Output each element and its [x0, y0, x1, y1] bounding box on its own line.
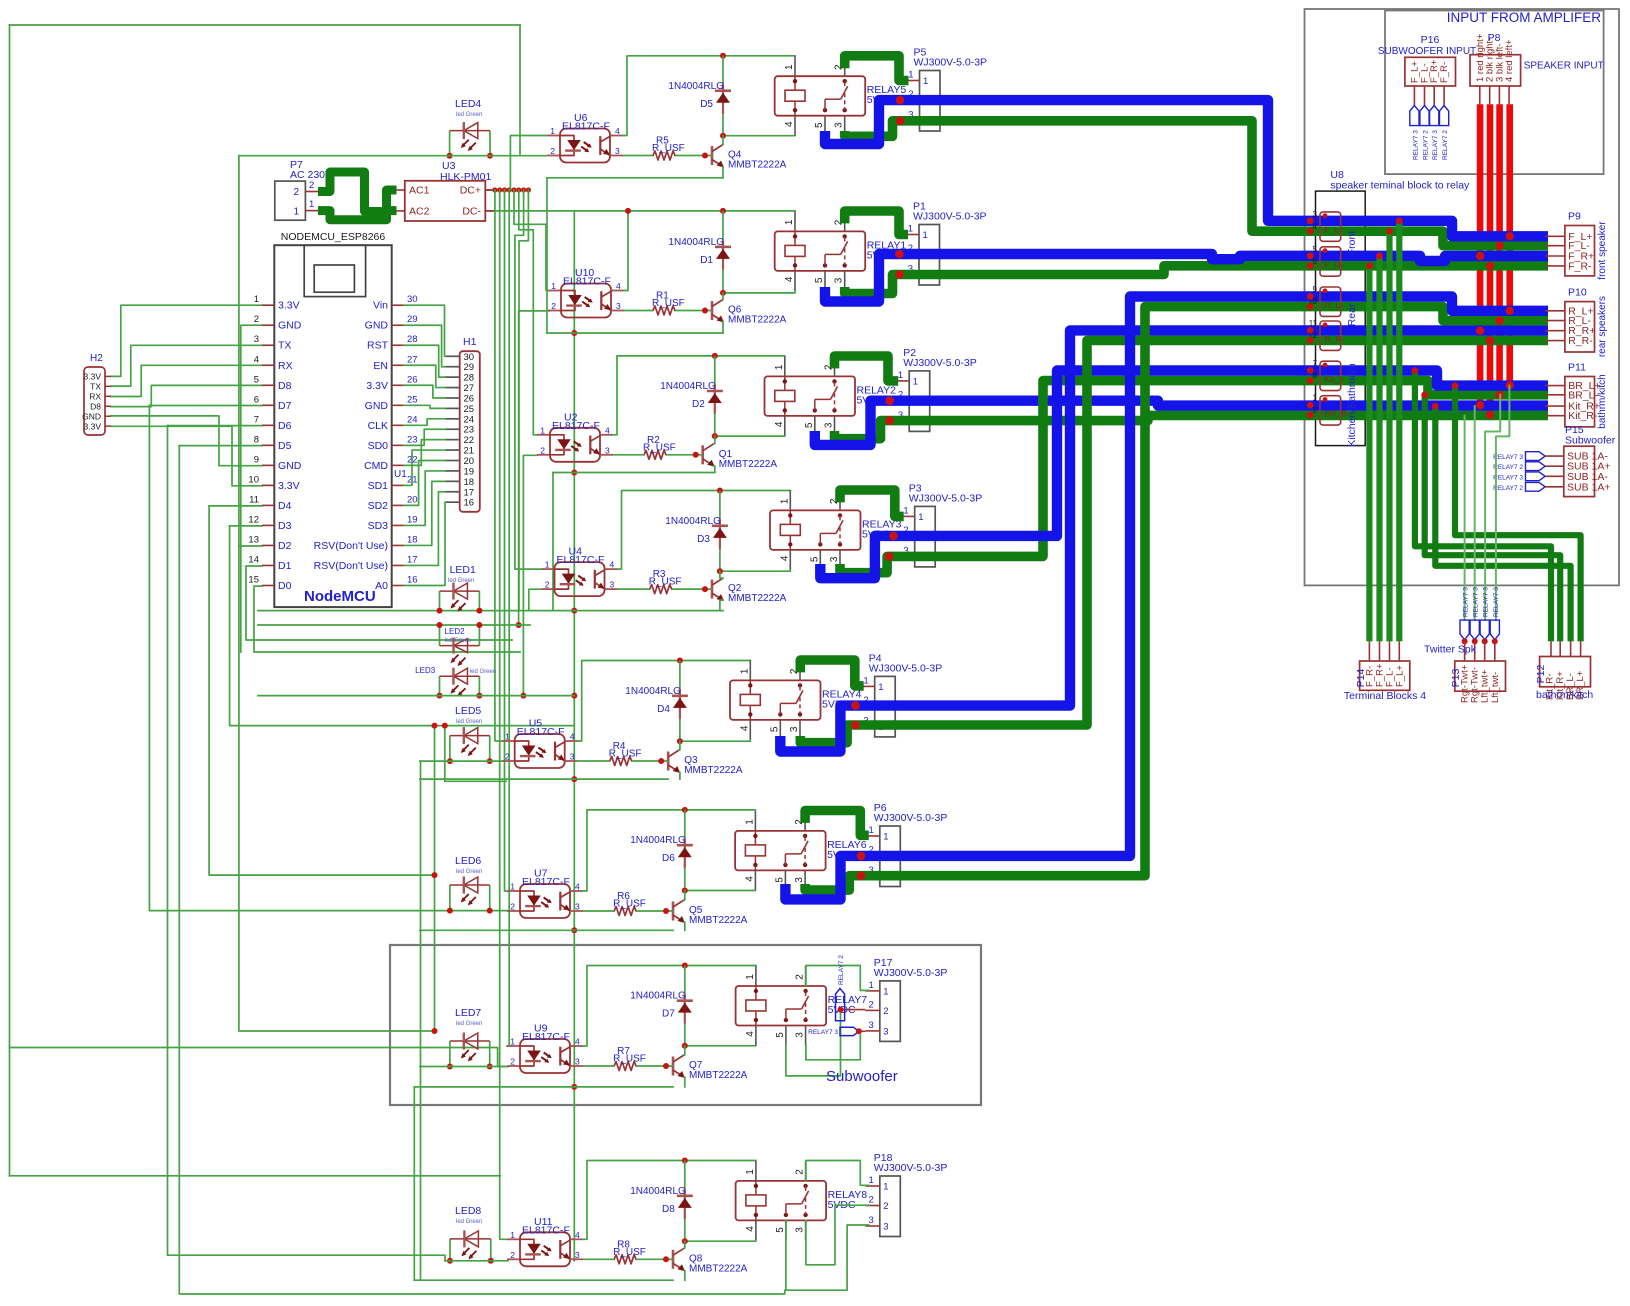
- svg-text:3: 3: [615, 146, 620, 156]
- svg-text:1: 1: [744, 819, 755, 825]
- svg-text:3: 3: [883, 1026, 888, 1037]
- svg-text:Subwoofer: Subwoofer: [826, 1068, 898, 1085]
- svg-text:LED1: LED1: [450, 564, 476, 576]
- svg-text:RELAY7 3: RELAY7 3: [1483, 587, 1490, 617]
- svg-text:1: 1: [784, 64, 795, 70]
- svg-text:R_USF: R_USF: [649, 577, 682, 588]
- svg-text:1: 1: [510, 1037, 515, 1047]
- svg-text:28: 28: [464, 373, 475, 384]
- svg-text:D1: D1: [700, 255, 713, 266]
- svg-text:LED5: LED5: [455, 705, 481, 717]
- svg-text:led Green: led Green: [456, 1219, 482, 1225]
- svg-text:P16: P16: [1421, 34, 1440, 46]
- svg-text:1: 1: [309, 199, 314, 210]
- svg-text:RELAY7 3: RELAY7 3: [1493, 474, 1523, 481]
- svg-text:1: 1: [540, 425, 545, 435]
- svg-text:A0: A0: [375, 580, 388, 592]
- svg-text:3: 3: [610, 580, 615, 590]
- svg-text:3.3V: 3.3V: [366, 380, 388, 392]
- svg-text:LED3: LED3: [415, 666, 436, 675]
- svg-text:5: 5: [1313, 245, 1318, 254]
- svg-text:1: 1: [883, 832, 888, 843]
- svg-text:5: 5: [774, 877, 785, 883]
- svg-text:LED6: LED6: [455, 855, 481, 867]
- svg-text:R_R-: R_R-: [1325, 334, 1345, 344]
- svg-text:1N4004RLG: 1N4004RLG: [625, 686, 681, 697]
- svg-text:2: 2: [795, 1169, 806, 1175]
- svg-text:4: 4: [744, 876, 755, 882]
- svg-text:MMBT2222A: MMBT2222A: [684, 765, 743, 776]
- svg-text:3.3V: 3.3V: [278, 300, 300, 312]
- svg-text:1N4004RLG: 1N4004RLG: [668, 237, 724, 248]
- svg-text:RELAY7 3: RELAY7 3: [1493, 454, 1523, 461]
- svg-text:1: 1: [784, 219, 795, 225]
- svg-text:D3: D3: [697, 534, 710, 545]
- svg-text:1N4004RLG: 1N4004RLG: [668, 81, 724, 92]
- svg-text:Front: Front: [1346, 231, 1358, 256]
- svg-text:H2: H2: [90, 353, 103, 364]
- svg-text:29: 29: [407, 314, 418, 325]
- svg-text:15: 15: [248, 574, 259, 585]
- svg-text:2: 2: [1313, 406, 1318, 415]
- svg-text:F_R-: F_R-: [1568, 260, 1592, 272]
- svg-text:RSV(Don't Use): RSV(Don't Use): [314, 540, 388, 552]
- svg-text:3: 3: [1313, 210, 1318, 219]
- svg-text:2: 2: [795, 974, 806, 980]
- svg-text:2: 2: [869, 1195, 874, 1206]
- svg-text:1: 1: [739, 668, 750, 674]
- svg-text:3: 3: [795, 1032, 806, 1038]
- svg-text:4: 4: [739, 725, 750, 731]
- svg-text:WJ300V-5.0-3P: WJ300V-5.0-3P: [909, 492, 983, 504]
- svg-text:4: 4: [605, 425, 610, 435]
- svg-text:3: 3: [575, 902, 580, 912]
- svg-text:1: 1: [869, 980, 874, 991]
- svg-text:RELAY7 2: RELAY7 2: [838, 955, 845, 985]
- svg-text:CMD: CMD: [364, 460, 388, 472]
- svg-text:front speaker: front speaker: [1597, 221, 1608, 280]
- svg-text:14: 14: [248, 554, 259, 565]
- svg-text:1N4004RLG: 1N4004RLG: [665, 516, 721, 527]
- svg-text:SD3: SD3: [368, 520, 389, 532]
- svg-text:20: 20: [407, 494, 418, 505]
- svg-text:Rear: Rear: [1346, 303, 1358, 326]
- svg-text:18: 18: [464, 477, 475, 488]
- svg-text:LED8: LED8: [455, 1205, 481, 1217]
- svg-text:EL817C-F: EL817C-F: [522, 1031, 570, 1043]
- svg-text:16: 16: [464, 498, 475, 509]
- svg-text:RX: RX: [89, 392, 101, 402]
- svg-text:D2: D2: [278, 540, 292, 552]
- svg-text:WJ300V-5.0-3P: WJ300V-5.0-3P: [874, 1162, 948, 1174]
- svg-text:D5: D5: [278, 440, 292, 452]
- svg-text:RELAY7 2: RELAY7 2: [1442, 130, 1449, 160]
- svg-text:3: 3: [795, 1227, 806, 1233]
- svg-text:1: 1: [745, 974, 756, 980]
- svg-text:21: 21: [464, 446, 475, 457]
- svg-text:LED4: LED4: [455, 98, 481, 110]
- svg-text:D4: D4: [657, 704, 670, 715]
- svg-text:SD1: SD1: [368, 480, 389, 492]
- svg-text:EL817C-F: EL817C-F: [562, 121, 610, 133]
- svg-text:Terminal Blocks 4: Terminal Blocks 4: [1344, 690, 1426, 702]
- svg-text:RSV(Don't Use): RSV(Don't Use): [314, 560, 388, 572]
- svg-text:4: 4: [616, 281, 621, 291]
- svg-text:3: 3: [616, 301, 621, 311]
- svg-text:EL817C-F: EL817C-F: [563, 276, 611, 288]
- svg-text:D6: D6: [662, 853, 675, 864]
- svg-text:R_USF: R_USF: [613, 1247, 646, 1258]
- svg-text:Kit_t-: Kit_t-: [1325, 374, 1345, 384]
- svg-text:30: 30: [407, 294, 418, 305]
- svg-text:U1: U1: [394, 469, 407, 480]
- svg-text:1N4004RLG: 1N4004RLG: [660, 381, 716, 392]
- svg-text:D5: D5: [700, 99, 713, 110]
- svg-text:1: 1: [510, 882, 515, 892]
- svg-text:P11: P11: [1568, 362, 1586, 374]
- svg-text:GND: GND: [365, 400, 389, 412]
- svg-text:4: 4: [575, 1230, 580, 1240]
- svg-text:11: 11: [249, 494, 259, 505]
- svg-text:RELAY7 2: RELAY7 2: [1493, 464, 1523, 471]
- svg-text:D8: D8: [90, 401, 101, 411]
- svg-text:2: 2: [309, 180, 314, 191]
- svg-text:EN: EN: [373, 360, 388, 372]
- svg-text:5: 5: [804, 422, 815, 428]
- svg-text:SUB 1A+: SUB 1A+: [1567, 481, 1610, 493]
- svg-text:4: 4: [745, 1226, 756, 1232]
- svg-text:RELAY7 2: RELAY7 2: [1423, 130, 1430, 160]
- svg-text:23: 23: [407, 434, 418, 445]
- svg-text:D8: D8: [662, 1204, 675, 1215]
- svg-text:2: 2: [540, 445, 545, 455]
- svg-text:Kit_R-: Kit_R-: [1568, 410, 1598, 422]
- svg-text:2: 2: [551, 301, 556, 311]
- svg-text:5: 5: [814, 122, 825, 128]
- svg-text:29: 29: [464, 362, 475, 373]
- svg-text:16: 16: [407, 574, 418, 585]
- svg-text:Vin: Vin: [373, 300, 388, 312]
- svg-text:9: 9: [254, 454, 259, 465]
- svg-text:6: 6: [254, 394, 259, 405]
- svg-text:SPEAKER INPUT: SPEAKER INPUT: [1524, 61, 1604, 72]
- svg-text:F_L+: F_L+: [1394, 665, 1405, 687]
- svg-text:Subwoofer: Subwoofer: [1565, 435, 1616, 447]
- svg-text:5: 5: [769, 726, 780, 732]
- svg-text:R_USF: R_USF: [652, 298, 685, 309]
- svg-text:GND: GND: [82, 411, 101, 421]
- svg-text:5: 5: [775, 1227, 786, 1233]
- svg-text:WJ300V-5.0-3P: WJ300V-5.0-3P: [869, 662, 943, 674]
- svg-text:NodeMCU: NodeMCU: [304, 588, 376, 605]
- svg-text:3: 3: [570, 752, 575, 762]
- svg-text:EL817C-F: EL817C-F: [522, 876, 570, 888]
- svg-text:4: 4: [784, 121, 795, 127]
- svg-text:4: 4: [784, 276, 795, 282]
- svg-text:3.3V: 3.3V: [278, 480, 300, 492]
- svg-text:5: 5: [254, 374, 259, 385]
- svg-text:D0: D0: [278, 580, 292, 592]
- svg-text:MMBT2222A: MMBT2222A: [689, 1263, 748, 1274]
- svg-text:5: 5: [809, 556, 820, 562]
- svg-text:Kitchen/Bathroom: Kitchen/Bathroom: [1346, 363, 1358, 447]
- svg-text:3.3V: 3.3V: [84, 421, 102, 431]
- svg-text:4: 4: [779, 555, 790, 561]
- svg-text:F_L-: F_L-: [1325, 225, 1343, 235]
- svg-text:1: 1: [883, 1182, 888, 1193]
- svg-text:4: 4: [615, 126, 620, 136]
- svg-text:1: 1: [923, 230, 928, 241]
- svg-text:GND: GND: [365, 320, 389, 332]
- svg-text:bathrm/kitch: bathrm/kitch: [1536, 689, 1593, 701]
- svg-text:9: 9: [1313, 285, 1318, 294]
- svg-text:17: 17: [407, 554, 418, 565]
- svg-text:5: 5: [775, 1032, 786, 1038]
- svg-text:AC1: AC1: [409, 185, 430, 197]
- svg-text:led Green: led Green: [456, 719, 482, 725]
- svg-text:2: 2: [550, 146, 555, 156]
- svg-text:1: 1: [779, 498, 790, 504]
- svg-text:1: 1: [550, 126, 555, 136]
- svg-text:1: 1: [898, 370, 903, 381]
- svg-text:R_USF: R_USF: [652, 143, 685, 154]
- svg-text:TX: TX: [278, 340, 291, 352]
- svg-text:18: 18: [407, 534, 418, 545]
- svg-text:RELAY7 3: RELAY7 3: [1493, 587, 1500, 617]
- svg-text:4: 4: [575, 882, 580, 892]
- svg-text:1: 1: [883, 986, 888, 997]
- svg-text:3: 3: [883, 1222, 888, 1233]
- svg-text:EL817C-F: EL817C-F: [557, 554, 605, 566]
- svg-text:MMBT2222A: MMBT2222A: [719, 459, 778, 470]
- svg-text:WJ300V-5.0-3P: WJ300V-5.0-3P: [874, 967, 948, 979]
- svg-text:4: 4: [570, 732, 575, 742]
- svg-text:1: 1: [551, 281, 556, 291]
- svg-text:1N4004RLG: 1N4004RLG: [630, 835, 686, 846]
- svg-text:2: 2: [254, 314, 259, 325]
- svg-text:R_USF: R_USF: [613, 899, 646, 910]
- svg-text:MMBT2222A: MMBT2222A: [689, 1070, 748, 1081]
- svg-text:3: 3: [254, 334, 259, 345]
- svg-text:20: 20: [464, 456, 475, 467]
- svg-text:led Green: led Green: [456, 869, 482, 875]
- svg-text:2: 2: [545, 580, 550, 590]
- svg-text:1: 1: [923, 76, 928, 87]
- svg-text:led Green: led Green: [456, 1021, 482, 1027]
- svg-text:led Green: led Green: [448, 578, 474, 584]
- svg-text:1: 1: [918, 512, 923, 523]
- svg-text:RELAY7 3: RELAY7 3: [808, 1029, 838, 1036]
- svg-text:2: 2: [293, 187, 299, 198]
- svg-text:EL817C-F: EL817C-F: [552, 420, 600, 432]
- svg-text:BR_L-: BR_L-: [1568, 389, 1598, 401]
- svg-text:1: 1: [254, 294, 259, 305]
- svg-text:27: 27: [464, 383, 475, 394]
- svg-text:D4: D4: [278, 500, 292, 512]
- svg-text:25: 25: [464, 404, 475, 415]
- svg-text:25: 25: [407, 394, 418, 405]
- svg-text:2: 2: [505, 752, 510, 762]
- svg-text:2: 2: [510, 1057, 515, 1067]
- svg-text:WJ300V-5.0-3P: WJ300V-5.0-3P: [874, 812, 948, 824]
- svg-text:1: 1: [1313, 394, 1318, 403]
- svg-text:7: 7: [254, 414, 259, 425]
- svg-text:HLK-PM01: HLK-PM01: [440, 171, 492, 183]
- svg-text:D7: D7: [662, 1009, 675, 1020]
- svg-text:EL817C-F: EL817C-F: [517, 726, 565, 738]
- svg-text:P9: P9: [1568, 211, 1581, 223]
- svg-text:SD0: SD0: [368, 440, 389, 452]
- svg-text:WJ300V-5.0-3P: WJ300V-5.0-3P: [914, 57, 988, 69]
- svg-text:RST: RST: [367, 340, 389, 352]
- svg-text:3: 3: [834, 122, 845, 128]
- svg-text:R_USF: R_USF: [613, 1054, 646, 1065]
- svg-text:rear speakers: rear speakers: [1597, 296, 1608, 357]
- svg-text:22: 22: [464, 435, 475, 446]
- svg-text:19: 19: [464, 466, 475, 477]
- svg-text:3.3V: 3.3V: [84, 372, 102, 382]
- svg-text:led Green: led Green: [470, 669, 496, 675]
- svg-text:1: 1: [878, 682, 883, 693]
- svg-text:30: 30: [464, 352, 475, 363]
- svg-text:D8: D8: [278, 380, 292, 392]
- svg-text:1: 1: [908, 224, 913, 235]
- svg-text:1: 1: [505, 732, 510, 742]
- svg-text:GND: GND: [278, 320, 302, 332]
- svg-text:13: 13: [248, 534, 259, 545]
- svg-text:5: 5: [814, 277, 825, 283]
- svg-text:12: 12: [248, 514, 259, 525]
- svg-text:17: 17: [464, 487, 475, 498]
- svg-text:4: 4: [1313, 222, 1318, 231]
- svg-text:26: 26: [407, 374, 418, 385]
- svg-text:EL817C-F: EL817C-F: [522, 1224, 570, 1236]
- svg-text:RELAY7 3: RELAY7 3: [1412, 130, 1419, 160]
- svg-text:8: 8: [254, 434, 259, 445]
- svg-text:11: 11: [1309, 319, 1318, 328]
- svg-text:D2: D2: [692, 399, 705, 410]
- svg-text:WJ300V-5.0-3P: WJ300V-5.0-3P: [913, 211, 987, 223]
- svg-text:RELAY7 2: RELAY7 2: [1493, 485, 1523, 492]
- svg-text:1N4004RLG: 1N4004RLG: [630, 1186, 686, 1197]
- svg-text:F_R-: F_R-: [1325, 260, 1344, 270]
- svg-text:led Green: led Green: [456, 112, 482, 118]
- svg-text:4: 4: [610, 560, 615, 570]
- svg-text:Twitter Spk: Twitter Spk: [1424, 644, 1477, 656]
- svg-text:1: 1: [869, 1175, 874, 1186]
- svg-text:NODEMCU_ESP8266: NODEMCU_ESP8266: [281, 231, 386, 243]
- svg-text:TX: TX: [90, 382, 101, 392]
- svg-text:23: 23: [464, 425, 475, 436]
- svg-text:D7: D7: [278, 400, 292, 412]
- svg-text:3: 3: [575, 1057, 580, 1067]
- svg-text:1: 1: [545, 560, 550, 570]
- svg-text:24: 24: [464, 414, 475, 425]
- svg-text:3: 3: [605, 445, 610, 455]
- svg-text:R_L-: R_L-: [1325, 300, 1344, 310]
- svg-text:P10: P10: [1568, 287, 1587, 299]
- svg-text:RX: RX: [278, 360, 293, 372]
- svg-text:LED7: LED7: [455, 1007, 481, 1019]
- svg-text:1: 1: [510, 1230, 515, 1240]
- svg-text:1N4004RLG: 1N4004RLG: [630, 991, 686, 1002]
- svg-text:3: 3: [575, 1250, 580, 1260]
- svg-text:MMBT2222A: MMBT2222A: [728, 593, 787, 604]
- svg-text:2: 2: [869, 999, 874, 1010]
- svg-text:10: 10: [248, 474, 259, 485]
- svg-text:CLK: CLK: [368, 420, 388, 432]
- svg-text:1: 1: [869, 825, 874, 836]
- svg-text:2: 2: [510, 1250, 515, 1260]
- svg-text:27: 27: [407, 354, 418, 365]
- svg-text:RELAY7 3: RELAY7 3: [1473, 587, 1480, 617]
- svg-text:3: 3: [824, 422, 835, 428]
- svg-text:R_R-: R_R-: [1568, 335, 1593, 347]
- svg-text:28: 28: [407, 334, 418, 345]
- svg-text:1: 1: [913, 376, 918, 387]
- svg-text:D6: D6: [278, 420, 292, 432]
- svg-text:RELAY7 3: RELAY7 3: [1463, 587, 1470, 617]
- svg-text:MMBT2222A: MMBT2222A: [689, 915, 748, 926]
- svg-text:2: 2: [510, 902, 515, 912]
- svg-text:3: 3: [834, 277, 845, 283]
- svg-text:WJ300V-5.0-3P: WJ300V-5.0-3P: [903, 357, 977, 369]
- svg-text:DC+: DC+: [460, 185, 481, 197]
- svg-text:19: 19: [407, 514, 418, 525]
- svg-text:D1: D1: [278, 560, 292, 572]
- svg-text:1: 1: [903, 505, 908, 516]
- svg-text:DC-: DC-: [462, 206, 481, 218]
- svg-text:24: 24: [407, 414, 418, 425]
- svg-text:1: 1: [745, 1169, 756, 1175]
- svg-text:INPUT FROM AMPLIFER: INPUT FROM AMPLIFER: [1447, 10, 1602, 25]
- svg-text:LED2: LED2: [445, 627, 466, 636]
- svg-text:3: 3: [794, 877, 805, 883]
- svg-text:R_USF: R_USF: [643, 442, 676, 453]
- svg-text:1: 1: [908, 70, 913, 81]
- svg-text:4: 4: [254, 354, 259, 365]
- svg-text:F_R-: F_R-: [1439, 62, 1450, 83]
- svg-text:R_USF: R_USF: [609, 749, 642, 760]
- svg-text:7: 7: [1313, 359, 1318, 368]
- svg-text:RELAY7 3: RELAY7 3: [1432, 130, 1439, 160]
- svg-text:4: 4: [774, 421, 785, 427]
- svg-text:GND: GND: [278, 460, 302, 472]
- svg-text:3: 3: [869, 1020, 874, 1031]
- svg-text:led Green: led Green: [445, 638, 471, 644]
- svg-text:D3: D3: [278, 520, 292, 532]
- svg-text:2: 2: [883, 1006, 888, 1017]
- svg-text:SUBWOOFER INPUT: SUBWOOFER INPUT: [1378, 46, 1476, 57]
- svg-text:MMBT2222A: MMBT2222A: [728, 160, 787, 171]
- svg-text:8: 8: [1313, 371, 1318, 380]
- svg-text:4: 4: [745, 1031, 756, 1037]
- svg-text:MMBT2222A: MMBT2222A: [728, 315, 787, 326]
- svg-text:3: 3: [829, 556, 840, 562]
- svg-text:4: 4: [575, 1037, 580, 1047]
- svg-text:SD2: SD2: [368, 500, 389, 512]
- svg-text:1: 1: [863, 675, 868, 686]
- svg-text:26: 26: [464, 393, 475, 404]
- svg-text:1: 1: [293, 207, 299, 218]
- svg-text:1: 1: [774, 364, 785, 370]
- svg-text:2: 2: [883, 1201, 888, 1212]
- svg-text:bathrm/kitch: bathrm/kitch: [1597, 374, 1608, 428]
- svg-text:3: 3: [789, 726, 800, 732]
- svg-text:4 red left+: 4 red left+: [1504, 39, 1515, 82]
- svg-text:speaker teminal block to relay: speaker teminal block to relay: [1330, 180, 1470, 192]
- svg-text:H1: H1: [463, 336, 477, 348]
